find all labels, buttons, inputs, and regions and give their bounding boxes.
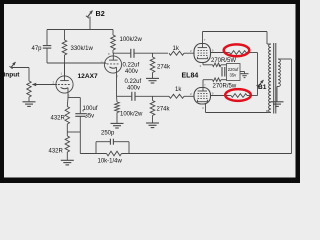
ground secondary bbox=[271, 101, 284, 103]
wire EL84 lower plate to OT bbox=[205, 104, 207, 113]
wire EL84 upper plate to OT bbox=[202, 32, 204, 44]
svg-text:B1: B1 bbox=[258, 84, 267, 91]
wire 1k to EL84 lower grid bbox=[184, 95, 194, 97]
transformer core bbox=[273, 43, 275, 114]
tube 12AX7 triode B envelope bbox=[104, 56, 121, 73]
pot wiper arrow bbox=[32, 83, 37, 86]
EL84 upper plate bar bbox=[198, 47, 207, 49]
resistor 1k lower bbox=[169, 94, 184, 98]
B2 supply arrow bbox=[88, 11, 93, 18]
ground 274k upper bbox=[146, 77, 159, 79]
wire feedback rail bbox=[80, 153, 106, 155]
triode A grid dashes bbox=[58, 84, 71, 86]
resistor 432R upper bbox=[65, 107, 69, 125]
resistor 274k upper bbox=[152, 53, 154, 57]
transformer primary winding bbox=[267, 43, 271, 45]
EL84 lower top bar bbox=[198, 90, 207, 92]
ground 100k lower bbox=[111, 122, 124, 124]
wire screen upper to B1 bbox=[248, 52, 258, 54]
svg-text:330k/1w: 330k/1w bbox=[71, 46, 94, 52]
svg-text:400v: 400v bbox=[127, 85, 140, 91]
wire V1a plate lead bbox=[64, 63, 66, 77]
tube EL84 lower envelope bbox=[194, 88, 211, 105]
input terminal arrow bbox=[11, 62, 16, 68]
svg-text:100k/2w: 100k/2w bbox=[120, 37, 143, 43]
capacitor 47p bbox=[43, 45, 52, 47]
capacitor 220uf/35v bbox=[221, 67, 223, 77]
ground 220uf bbox=[241, 73, 249, 75]
resistor 100k/2w cathode load bbox=[115, 102, 120, 113]
capacitor 0.22uf lower bbox=[131, 92, 133, 101]
resistor 1k upper bbox=[169, 51, 184, 55]
svg-text:47p: 47p bbox=[32, 46, 43, 52]
wire cathode node rail bbox=[117, 95, 132, 97]
triode A plate bar bbox=[60, 80, 69, 82]
wire top rail B2 bbox=[47, 29, 113, 31]
red ellipse upper bbox=[224, 44, 250, 56]
triode A cathode bbox=[61, 87, 68, 88]
resistor 100k/2w plate load bbox=[112, 30, 114, 36]
EL84 upper grid rows bbox=[198, 50, 208, 52]
wire secondary top to feedback bbox=[278, 58, 292, 60]
tube 12AX7 triode A envelope bbox=[56, 76, 73, 93]
red ellipse lower bbox=[225, 89, 251, 101]
resistor 270R/5W cathode upper bbox=[213, 63, 222, 67]
triode B plate bar bbox=[109, 59, 118, 61]
resistor 270R/5w screen lower bbox=[229, 95, 232, 97]
svg-text:0.22uf: 0.22uf bbox=[123, 63, 140, 69]
capacitor 100uf/35v bbox=[75, 113, 85, 115]
svg-text:270R/5W: 270R/5W bbox=[211, 58, 236, 64]
ground pot bbox=[23, 101, 36, 103]
svg-text:B2: B2 bbox=[96, 9, 105, 18]
svg-text:12AX7: 12AX7 bbox=[78, 73, 98, 80]
wire secondary bottom to ground bbox=[277, 86, 278, 88]
wire plate rail of V1a bbox=[47, 62, 106, 64]
tube EL84 upper envelope bbox=[194, 44, 211, 63]
svg-text:1k: 1k bbox=[173, 46, 180, 52]
ground 432R bbox=[61, 159, 74, 161]
triode B grid dashes bbox=[107, 63, 120, 65]
wire plate node to cap bbox=[113, 52, 131, 54]
resistor 270R/5w screen upper bbox=[227, 52, 230, 54]
wire cap to grid EL84 lower bbox=[135, 95, 169, 97]
svg-text:432R: 432R bbox=[49, 149, 64, 155]
resistor 274k lower bbox=[152, 96, 154, 100]
svg-text:400v: 400v bbox=[125, 69, 138, 75]
B1 supply arrow bbox=[258, 80, 264, 87]
EL84 lower grid rows bbox=[198, 93, 208, 95]
wire 1k to EL84 upper grid bbox=[184, 52, 194, 54]
wire cathode junction lower bbox=[67, 131, 80, 133]
transformer secondary winding bbox=[278, 59, 280, 87]
svg-text:35v: 35v bbox=[230, 73, 238, 78]
capacitor 250p bbox=[109, 139, 111, 145]
wire cathode node bbox=[68, 97, 80, 99]
wire EL84 lower screen lead bbox=[211, 95, 229, 97]
feedback box sides bbox=[95, 142, 97, 154]
resistor 270R/5w cathode lower bbox=[213, 78, 222, 82]
svg-text:EL84: EL84 bbox=[182, 73, 199, 80]
svg-text:220uf: 220uf bbox=[228, 67, 239, 72]
svg-text:100k/2w: 100k/2w bbox=[120, 112, 143, 118]
wire B2 stub bbox=[89, 17, 91, 30]
wire screen lower to B1 bbox=[248, 95, 258, 97]
wire box to ground bbox=[240, 71, 245, 73]
wire cap to grid EL84 upper bbox=[134, 52, 168, 54]
triode B cathode bbox=[109, 67, 116, 68]
resistor 432R lower bbox=[65, 136, 69, 152]
ground 274k lower bbox=[146, 122, 159, 124]
EL84 lower cathode bbox=[197, 100, 207, 102]
border frame bbox=[0, 0, 300, 4]
svg-text:274k: 274k bbox=[157, 65, 171, 71]
EL84 upper cathode bbox=[197, 57, 207, 59]
svg-text:input: input bbox=[4, 72, 21, 79]
wire 100uf bottom lead bbox=[79, 116, 81, 153]
potentiometer 1M bbox=[27, 81, 31, 97]
svg-text:10k-1/4w: 10k-1/4w bbox=[98, 159, 123, 165]
capacitor 0.22uf upper bbox=[130, 49, 132, 58]
wire 47p bottom lead bbox=[46, 48, 48, 63]
svg-text:250p: 250p bbox=[101, 131, 115, 137]
svg-text:1k: 1k bbox=[175, 87, 182, 93]
wire 47p top lead bbox=[46, 30, 48, 46]
wire 100uf top lead bbox=[79, 98, 81, 114]
svg-text:274k: 274k bbox=[157, 107, 171, 113]
resistor 10k-1/4w bbox=[107, 151, 122, 156]
wire EL84 upper cathode lead bbox=[202, 62, 204, 65]
svg-text:432R: 432R bbox=[51, 116, 66, 122]
220uf callout box bbox=[227, 64, 241, 81]
wire EL84 upper screen lead bbox=[211, 52, 228, 54]
resistor 330k/1w bbox=[64, 30, 66, 41]
svg-text:100uf: 100uf bbox=[83, 106, 98, 112]
svg-text:0.22uf: 0.22uf bbox=[125, 79, 142, 85]
svg-text:35v: 35v bbox=[85, 114, 95, 120]
wire EL84 lower cathode lead bbox=[202, 80, 204, 88]
wire input to pot top bbox=[11, 67, 29, 69]
